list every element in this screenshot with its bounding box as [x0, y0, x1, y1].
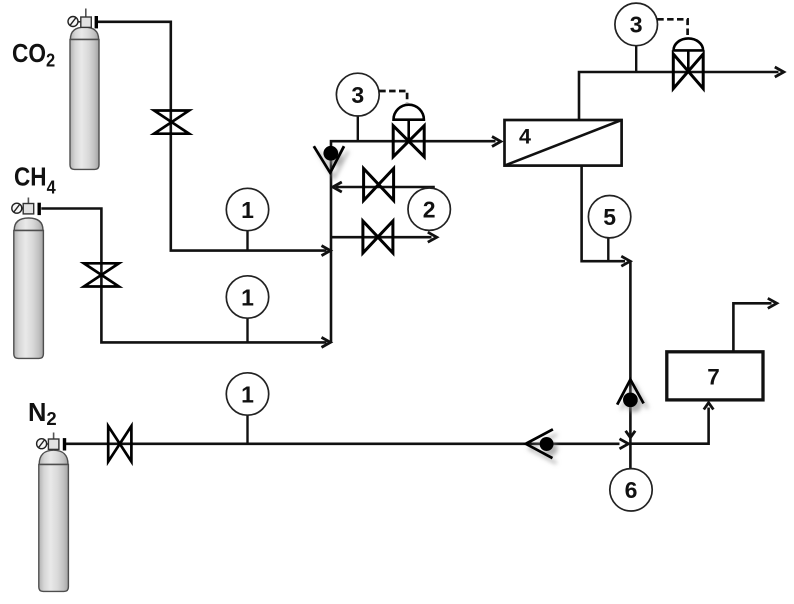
- indicator circle 3 retentate control: [615, 3, 658, 71]
- valve V3 on N2 line: [108, 426, 131, 462]
- indicator circle 3 feed control: [336, 73, 379, 140]
- gas cylinder CH4: [12, 198, 44, 359]
- pipe junction to analyzer: [630, 408, 708, 444]
- gas cylinder N2: [37, 433, 69, 592]
- indicator circle 1 CH4 line: [226, 276, 268, 342]
- svg-text:3: 3: [351, 82, 364, 108]
- pipe manifold riser and feed to membrane: [331, 141, 496, 342]
- valve V1 on CO2 line: [154, 111, 189, 134]
- pipe permeate down from membrane: [582, 166, 625, 262]
- control valve PCV2 stem: [687, 50, 690, 71]
- analyzer box 7: [667, 352, 763, 400]
- pipe vent branch lower: [331, 236, 432, 239]
- arrow permeate elbow: [621, 256, 630, 266]
- indicator circle 2: [408, 188, 450, 230]
- control valve PCV1 body: [393, 126, 424, 157]
- dashed signal line circle3 to control valve PCV2: [657, 19, 687, 35]
- valve V2 on CH4 line: [84, 263, 119, 286]
- svg-text:5: 5: [603, 204, 616, 230]
- indicator circle 1 N2 line: [226, 373, 268, 443]
- control valve PCV2 body: [673, 54, 703, 89]
- arrow feed into membrane: [492, 137, 501, 147]
- label CH4: [14, 163, 56, 197]
- label CO2: [12, 40, 55, 71]
- check valve on permeate drop: [617, 380, 643, 408]
- arrow CH4 into manifold: [322, 337, 331, 347]
- control valve PCV2 actuator dome: [674, 38, 704, 50]
- control valve PCV1 stem: [407, 120, 410, 142]
- arrow CO2 into manifold: [322, 246, 331, 256]
- pipe CO2 to manifold: [98, 22, 327, 251]
- membrane module 4: [505, 120, 622, 166]
- svg-text:1: 1: [241, 381, 254, 407]
- pipe junction stub to circle 6: [629, 444, 632, 469]
- check valve on manifold riser: [314, 146, 344, 173]
- svg-text:3: 3: [630, 12, 643, 38]
- check valve on N2 line: [526, 429, 554, 458]
- svg-text:6: 6: [625, 477, 638, 503]
- control valve PCV1 actuator dome: [394, 105, 424, 120]
- arrow retentate vent: [775, 67, 784, 77]
- pipe CH4 to manifold: [41, 209, 326, 343]
- arrow lower branch vent: [428, 232, 437, 242]
- indicator circle 1 CO2 line: [226, 188, 268, 250]
- arrow analyzer vent: [768, 298, 777, 308]
- pipe retentate from membrane to vent: [579, 72, 779, 120]
- svg-text:7: 7: [707, 365, 720, 390]
- svg-text:1: 1: [241, 284, 254, 310]
- pipe purge branch upper (flow into manifold): [336, 186, 435, 189]
- arrow permeate into junction: [626, 431, 636, 438]
- svg-text:1: 1: [241, 197, 254, 223]
- indicator circle 6: [610, 469, 652, 511]
- pipe permeate drop to junction: [629, 261, 632, 444]
- gas cylinder CO2: [68, 9, 99, 170]
- arrow upper branch into manifold: [333, 182, 342, 192]
- dashed signal line circle3 to control valve PCV1: [379, 91, 407, 103]
- valve V4 on upper branch: [364, 169, 394, 201]
- svg-text:2: 2: [423, 197, 436, 223]
- arrow into analyzer: [704, 403, 714, 410]
- pipe N2 line: [66, 442, 620, 445]
- arrow N2 into junction: [620, 439, 629, 449]
- indicator circle 5: [588, 196, 630, 261]
- svg-text:4: 4: [519, 125, 531, 149]
- valve V5 on lower branch: [363, 221, 393, 253]
- pipe analyzer vent: [733, 303, 771, 352]
